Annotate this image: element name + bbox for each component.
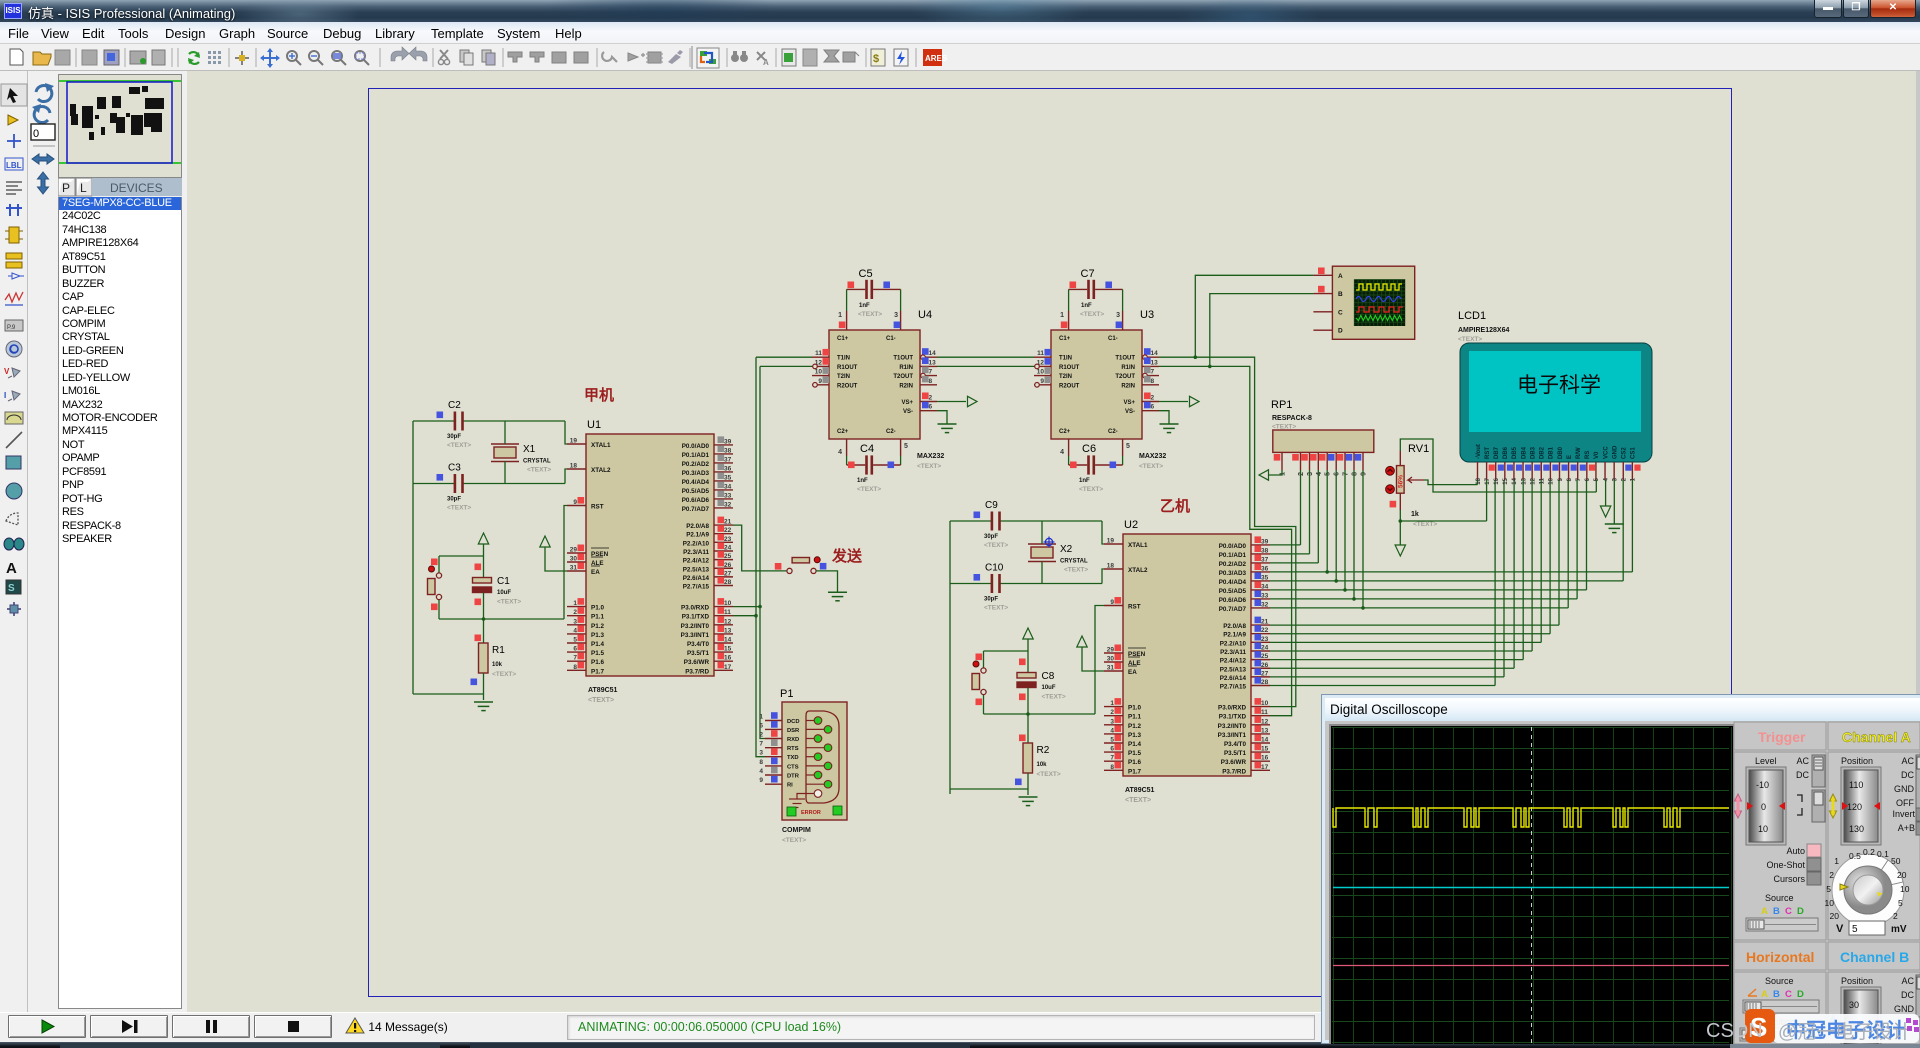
U4 MAX232 [812,309,937,439]
svg-text:DTR: DTR [787,774,800,780]
svg-text:-10: -10 [1756,780,1769,790]
svg-text:13: 13 [724,627,732,634]
svg-text:C6: C6 [1082,443,1096,455]
svg-text:COMPIM: COMPIM [782,827,811,834]
svg-text:R2OUT: R2OUT [1059,383,1080,389]
svg-text:4: 4 [838,449,842,456]
svg-text:C8: C8 [1042,671,1055,682]
svg-text:P0.2/AD2: P0.2/AD2 [1219,561,1247,568]
svg-text:30: 30 [1107,656,1115,663]
svg-text:37: 37 [1261,556,1269,563]
svg-text:15: 15 [724,646,732,653]
svg-text:MAX232: MAX232 [1139,453,1166,460]
svg-text:ARES: ARES [925,54,948,63]
svg-text:T1OUT: T1OUT [1115,356,1135,362]
svg-text:U3: U3 [1140,309,1154,321]
svg-text:P3.6/WR: P3.6/WR [684,659,710,666]
ERROR indicator [787,807,796,816]
svg-text:3: 3 [573,618,577,625]
svg-text:5: 5 [1898,898,1903,908]
svg-text:13: 13 [1261,727,1269,734]
svg-text:P1.2: P1.2 [591,623,604,630]
svg-text:22: 22 [1261,627,1269,634]
wire LCD control verticals [1631,480,1633,572]
svg-text:P3.0/RXD: P3.0/RXD [1218,705,1246,712]
svg-text:13: 13 [1151,359,1159,366]
svg-text:P2.0/A8: P2.0/A8 [1223,623,1246,630]
svg-text:<TEXT>: <TEXT> [1080,311,1104,318]
svg-text:RI: RI [787,783,793,789]
svg-text:I: I [4,391,6,400]
svg-text:P3.3/INT1: P3.3/INT1 [1218,732,1247,739]
svg-text:11: 11 [724,609,731,616]
svg-text:9: 9 [1110,599,1114,606]
connector P1 COMPIM [759,688,847,844]
svg-text:CS2: CS2 [1622,447,1628,459]
svg-text:28: 28 [1261,679,1269,686]
svg-text:9: 9 [1558,477,1564,481]
svg-text:T2IN: T2IN [1059,374,1072,380]
svg-text:P2.7/A15: P2.7/A15 [1220,684,1247,691]
svg-text:5: 5 [1826,884,1831,894]
svg-text:2: 2 [1151,395,1155,402]
svg-text:14: 14 [1261,737,1269,744]
svg-text:13: 13 [929,359,937,366]
svg-text:32: 32 [1261,601,1269,608]
svg-text:DB1: DB1 [1549,446,1555,459]
svg-text:38: 38 [724,447,732,454]
svg-text:VS+: VS+ [901,400,913,406]
svg-text:V0: V0 [1594,451,1600,459]
svg-text:15: 15 [1261,746,1269,753]
svg-text:CRYSTAL: CRYSTAL [523,459,551,465]
svg-text:<TEXT>: <TEXT> [1413,521,1437,528]
svg-text:Trigger: Trigger [1758,729,1806,745]
svg-text:3: 3 [1110,718,1114,725]
svg-text:6: 6 [929,404,933,411]
svg-text:R1: R1 [492,645,505,656]
svg-text:0.1: 0.1 [1877,849,1889,859]
svg-text:18: 18 [570,463,578,470]
svg-text:4: 4 [1110,727,1114,734]
resistor pack RP1 RESPACK-8 [1271,399,1374,476]
svg-text:11: 11 [1540,477,1546,484]
svg-text:7: 7 [1576,477,1582,481]
wire RV1 top to LCD V0 [1400,439,1596,492]
svg-text:1: 1 [1834,856,1839,866]
svg-text:C5: C5 [859,268,873,280]
svg-text:5: 5 [1325,472,1332,476]
wire U3 T1OUT to U2 RXD [1159,357,1296,706]
svg-text:9: 9 [1361,472,1368,476]
wire left vertical [949,521,951,794]
svg-text:11: 11 [1037,350,1044,357]
svg-text:DB0: DB0 [1558,446,1564,459]
svg-text:18: 18 [1476,477,1482,484]
svg-text:110: 110 [1849,780,1863,790]
svg-text:DEVICES: DEVICES [110,181,163,195]
svg-text:P1.3: P1.3 [591,632,604,639]
svg-text:14: 14 [1151,350,1159,357]
svg-text:A: A [1338,273,1343,280]
svg-text:<TEXT>: <TEXT> [1064,567,1088,574]
svg-text:10: 10 [1261,700,1269,707]
svg-text:DSR: DSR [787,728,800,734]
svg-text:32: 32 [724,501,732,508]
svg-text:P0.1/AD1: P0.1/AD1 [682,452,710,459]
svg-text:P2.4/A12: P2.4/A12 [683,558,710,565]
svg-text:8: 8 [929,378,933,385]
svg-text:<TEXT>: <TEXT> [588,697,614,704]
svg-text:7: 7 [1110,755,1114,762]
svg-text:T1IN: T1IN [837,356,850,362]
capacitor C2 30pF [413,420,455,422]
svg-text:14: 14 [1512,477,1518,484]
svg-text:15: 15 [1503,477,1509,484]
oscilloscope mini component [1313,266,1414,339]
svg-text:C1-: C1- [1108,336,1118,342]
svg-text:30pF: 30pF [984,534,998,540]
svg-text:3: 3 [759,750,763,757]
svg-text:P2.6/A14: P2.6/A14 [1220,675,1247,682]
svg-text:<TEXT>: <TEXT> [527,467,551,474]
svg-text:C9: C9 [985,500,998,511]
svg-text:DB4: DB4 [1521,446,1527,459]
wire XTAL risers [1102,521,1104,544]
svg-text:1: 1 [759,714,763,721]
svg-text:C3: C3 [448,463,461,474]
svg-text:DB7: DB7 [1494,446,1500,459]
svg-text:RS: RS [1585,451,1591,459]
svg-text:8: 8 [1567,477,1573,481]
svg-text:P0.7/AD7: P0.7/AD7 [1219,606,1247,613]
svg-text:T2IN: T2IN [837,374,850,380]
U1 AT89C51 microcontroller [567,419,733,704]
svg-text:9: 9 [818,378,822,385]
svg-text:电子科学: 电子科学 [1517,374,1601,397]
svg-text:11: 11 [1261,709,1268,716]
svg-text:10: 10 [1900,884,1910,894]
svg-text:31: 31 [570,565,578,572]
svg-text:P2.3/A11: P2.3/A11 [1220,649,1246,656]
svg-text:4: 4 [759,768,763,775]
svg-text:10: 10 [1037,369,1045,376]
wire U3 R1IN to U2 TXD [1159,366,1292,715]
svg-text:30pF: 30pF [447,434,461,440]
svg-text:38: 38 [1261,547,1269,554]
svg-text:P3.2/INT0: P3.2/INT0 [681,623,710,630]
svg-text:16: 16 [1261,755,1269,762]
svg-text:<TEXT>: <TEXT> [1042,694,1066,701]
svg-text:DB2: DB2 [1540,446,1546,459]
svg-text:OFF: OFF [1896,798,1914,808]
svg-text:12: 12 [1261,718,1269,725]
ground LCD GND [1613,480,1615,524]
wire U4-R1OUT [760,365,812,367]
svg-text:<TEXT>: <TEXT> [984,542,1008,549]
svg-text:P0.6/AD6: P0.6/AD6 [1219,597,1247,604]
svg-text:C2+: C2+ [837,429,849,435]
crystal X1 [494,447,516,458]
svg-text:27: 27 [1261,670,1269,677]
svg-text:CSDN: CSDN [1706,1020,1763,1042]
svg-text:P1.1: P1.1 [1128,714,1141,721]
svg-text:5: 5 [1110,737,1114,744]
svg-text:P1.6: P1.6 [1128,759,1141,766]
potentiometer RV1 POT-HG 1k [1386,443,1438,528]
wire LCD -Vout to RV1 wiper [1477,480,1479,485]
svg-text:P0.6/AD6: P0.6/AD6 [682,497,710,504]
svg-text:Auto: Auto [1786,846,1805,856]
button reset [983,651,985,668]
svg-text:B: B [1773,906,1780,917]
svg-text:0: 0 [33,128,39,140]
svg-text:DC: DC [1901,990,1914,1000]
capacitor C7 1nF [1069,288,1088,290]
svg-text:One-Shot: One-Shot [1766,860,1805,870]
svg-text:AT89C51: AT89C51 [1125,787,1155,794]
svg-text:<TEXT>: <TEXT> [917,463,941,470]
svg-text:AMPIRE128X64: AMPIRE128X64 [1458,327,1509,334]
wire reset top rail [984,650,1029,652]
svg-text:DB6: DB6 [1503,446,1509,459]
svg-text:8: 8 [573,664,577,671]
U3 MAX232 [1034,309,1159,439]
svg-text:<TEXT>: <TEXT> [1139,463,1163,470]
svg-text:P0.3/AD3: P0.3/AD3 [1219,570,1247,577]
svg-text:RXD: RXD [787,737,799,743]
svg-text:6: 6 [1585,477,1591,481]
wire RST riser [1095,606,1104,715]
svg-text:28: 28 [724,579,732,586]
svg-text:56%: 56% [1398,475,1405,488]
svg-text:P1.3: P1.3 [1128,732,1141,739]
svg-text:<TEXT>: <TEXT> [857,486,881,493]
svg-text:P3.1/TXD: P3.1/TXD [682,614,710,621]
svg-text:31: 31 [1107,665,1115,672]
svg-text:5: 5 [573,637,577,644]
crystal X2 [1031,547,1053,558]
svg-text:C2-: C2- [886,429,896,435]
wire reset bottom rail [984,713,1096,715]
svg-text:<TEXT>: <TEXT> [1125,797,1151,804]
svg-text:B: B [1338,291,1343,298]
svg-text:35: 35 [724,474,732,481]
svg-text:6: 6 [1334,472,1341,476]
resistor R2 10k [1027,714,1029,743]
svg-text:P1.1: P1.1 [591,614,604,621]
wire scope A [1195,275,1313,357]
svg-text:17: 17 [724,664,732,671]
capacitor C1 10uF electrolytic [483,556,485,577]
svg-text:10: 10 [1549,477,1555,484]
svg-text:6: 6 [759,722,763,729]
svg-text:14: 14 [724,637,732,644]
svg-text:@冠一电子设计: @冠一电子设计 [1778,1021,1911,1043]
svg-text:R1OUT: R1OUT [837,365,858,371]
svg-text:7: 7 [1343,472,1350,476]
wire U1 RXD to U4 R1OUT / COMPIM [733,606,760,608]
svg-text:4: 4 [1060,449,1064,456]
svg-text:C7: C7 [1081,268,1095,280]
svg-text:P2.2/A10: P2.2/A10 [1220,640,1247,647]
svg-text:5: 5 [1594,477,1600,481]
svg-text:36: 36 [1261,565,1269,572]
svg-text:TXD: TXD [787,755,799,761]
svg-text:P3.2/INT0: P3.2/INT0 [1218,723,1247,730]
svg-text:C2-: C2- [1108,429,1118,435]
svg-text:A+B: A+B [1898,823,1915,833]
svg-text:V: V [4,367,10,376]
wire scope B [1210,294,1314,367]
svg-text:25: 25 [724,553,732,560]
power EA arrow [1081,647,1083,659]
svg-text:10k: 10k [492,662,503,668]
svg-text:R2: R2 [1037,745,1050,756]
svg-text:GND: GND [1894,784,1915,794]
svg-text:P3.4/T0: P3.4/T0 [687,641,710,648]
svg-text:AT89C51: AT89C51 [588,687,618,694]
svg-text:36: 36 [724,465,732,472]
svg-text:29: 29 [1107,647,1115,654]
wire U2 P2 bus rows to LCD data [1270,624,1559,626]
svg-text:P3.0/RXD: P3.0/RXD [681,605,709,612]
svg-text:3: 3 [1116,312,1120,319]
svg-text:2: 2 [1893,911,1898,921]
svg-text:P2.3/A11: P2.3/A11 [683,549,709,556]
svg-text:$: $ [873,53,879,65]
svg-text:R1IN: R1IN [1121,365,1135,371]
svg-text:EA: EA [1128,669,1137,676]
svg-text:R2OUT: R2OUT [837,383,858,389]
svg-text:P0.3/AD3: P0.3/AD3 [682,470,710,477]
svg-text:P0.7/AD7: P0.7/AD7 [682,506,710,513]
svg-text:10: 10 [815,369,823,376]
svg-text:1nF: 1nF [859,303,870,309]
svg-text:C: C [1785,906,1792,917]
svg-text:P0.2/AD2: P0.2/AD2 [682,461,710,468]
svg-text:7: 7 [1151,369,1155,376]
svg-text:1: 1 [1110,700,1114,707]
svg-text:<TEXT>: <TEXT> [1272,424,1296,431]
U2 AT89C51 microcontroller [1104,519,1270,804]
svg-text:乙机: 乙机 [1160,497,1190,515]
svg-text:35: 35 [1261,574,1269,581]
svg-text:<TEXT>: <TEXT> [984,605,1008,612]
svg-text:AC: AC [1901,976,1914,986]
svg-text:C: C [1785,989,1792,1000]
wire LCD RST row [1486,480,1488,521]
svg-text:17: 17 [1261,764,1269,771]
svg-text:30pF: 30pF [447,497,461,503]
svg-text:3: 3 [1612,477,1618,481]
wire U4 R1IN to U3 R1OUT [937,365,1034,367]
knob [1832,854,1904,926]
svg-text:P1.7: P1.7 [1128,768,1141,775]
svg-text:11: 11 [815,350,822,357]
capacitor C10 30pF [950,583,992,585]
svg-text:0.5: 0.5 [1849,851,1861,861]
svg-text:L: L [80,181,87,195]
svg-text:1nF: 1nF [1079,478,1090,484]
svg-text:R1IN: R1IN [899,365,913,371]
wire RV1 bottom / LCD RST [1400,510,1486,521]
svg-text:2: 2 [1622,477,1628,481]
svg-text:P1.0: P1.0 [1128,705,1141,712]
svg-text:C2+: C2+ [1059,429,1071,435]
svg-text:1: 1 [838,312,842,319]
wire XTAL risers [565,421,567,444]
power arrow U3 VS+ [1159,401,1188,403]
svg-text:50: 50 [1891,856,1901,866]
svg-text:26: 26 [1261,662,1269,669]
svg-text:P1.5: P1.5 [1128,750,1141,757]
svg-text:10: 10 [1825,898,1835,908]
pin 5 shield [806,793,814,795]
capacitor C8 10uF electrolytic [1027,651,1029,672]
ground send [828,592,847,601]
svg-text:RST: RST [1485,447,1491,459]
svg-text:R2IN: R2IN [1121,383,1135,389]
svg-text:24: 24 [724,544,732,551]
svg-text:4: 4 [573,627,577,634]
svg-text:21: 21 [1261,619,1269,626]
svg-text:R1OUT: R1OUT [1059,365,1080,371]
svg-text:10: 10 [1758,824,1768,834]
svg-text:P3.4/T0: P3.4/T0 [1224,741,1247,748]
svg-text:P1.7: P1.7 [591,668,604,675]
svg-text:P1.2: P1.2 [1128,723,1141,730]
svg-text:5: 5 [1852,924,1858,935]
svg-text:AC: AC [1796,756,1809,766]
svg-text:23: 23 [1261,636,1269,643]
svg-text:2: 2 [1298,472,1305,476]
svg-text:CS1: CS1 [1631,447,1637,459]
svg-text:4: 4 [1316,472,1323,476]
ground U3 VS- [1159,411,1169,424]
svg-text:C1-: C1- [886,336,896,342]
svg-text:<TEXT>: <TEXT> [1037,771,1061,778]
svg-text:9: 9 [759,777,763,784]
svg-text:-Vout: -Vout [1476,444,1482,459]
svg-text:8: 8 [1151,378,1155,385]
svg-text:RESPACK-8: RESPACK-8 [1272,415,1312,422]
svg-text:E: E [1567,455,1573,459]
wire ground row [950,788,1028,790]
svg-text:P2.5/A13: P2.5/A13 [683,566,710,573]
svg-text:Cursors: Cursors [1773,874,1805,884]
svg-text:3: 3 [1307,472,1314,476]
capacitor C6 1nF [1068,439,1070,456]
svg-text:17: 17 [1485,477,1491,484]
svg-text:<TEXT>: <TEXT> [1079,486,1103,493]
svg-text:39: 39 [1261,538,1269,545]
marker origin X2 [1044,537,1055,548]
svg-text:2: 2 [1829,870,1834,880]
svg-text:P0.0/AD0: P0.0/AD0 [1219,543,1247,550]
svg-text:<TEXT>: <TEXT> [858,311,882,318]
svg-text:P1.0: P1.0 [591,605,604,612]
ground [1019,797,1038,806]
svg-text:MAX232: MAX232 [917,453,944,460]
svg-text:25: 25 [1261,653,1269,660]
svg-text:C4: C4 [860,443,874,455]
wire RV1 wiper to -Vout [1424,480,1478,485]
svg-text:Invert: Invert [1892,809,1915,819]
svg-text:RV1: RV1 [1408,443,1429,455]
wire RP1 pins to P0 bus [1300,470,1302,545]
svg-text:C10: C10 [985,563,1004,574]
